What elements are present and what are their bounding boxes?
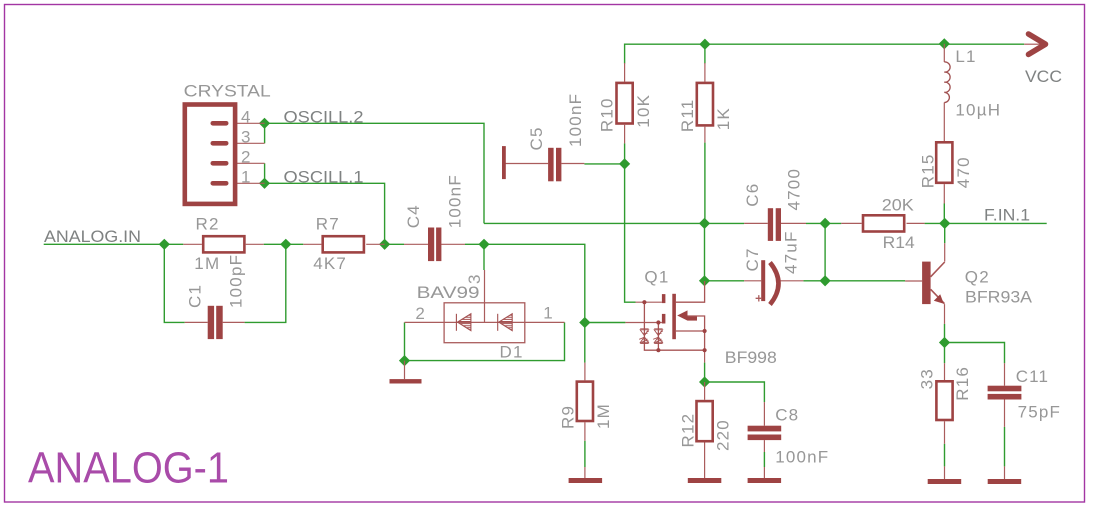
wire pin R7 right lead [366,243,384,245]
resistor R2 [203,236,244,252]
junction Q1 drain node [699,275,710,286]
wire crystal pin2 link [264,163,266,183]
wire pin R16 top lead [944,363,946,380]
wire pin R11 bottom lead [704,127,706,143]
ground symbol at C11 [988,479,1022,484]
wire pin VCC arrow lead [1024,43,1040,45]
wire C8 bottom to ground [763,452,765,467]
wire R9 bottom to ground [584,441,586,467]
svg-text:4K7: 4K7 [313,254,347,273]
wire C6/C7 junction link [824,223,826,280]
wire pin D1 pin3 vertical [484,270,486,322]
svg-text:10µH: 10µH [955,101,1001,120]
svg-text:R10: R10 [598,97,617,132]
capacitor C6 plates [768,208,781,241]
wire R11 bottom to C6 row [704,143,706,224]
wire emitter node to C11 branch [945,343,1005,364]
diode D1 element 2 [498,314,513,331]
wire R10 bottom to junction [624,143,626,164]
svg-text:CRYSTAL: CRYSTAL [184,82,271,101]
svg-text:470: 470 [954,156,973,188]
wire D1 pin2 to ground rail [405,322,565,360]
junction D1 ground node [399,355,410,366]
transistor Q1 protection diodes [639,329,662,344]
wire pin L1 top lead [943,44,945,62]
wire pin R10 bottom lead [624,125,626,144]
wire pin gate2 lead [625,322,662,324]
svg-text:100nF: 100nF [446,174,465,228]
junction C6 row / R11 [699,218,710,229]
wire pin R12 top lead [704,382,706,400]
wire C4 right to junction [465,243,484,245]
capacitor C7 polarized [761,260,778,304]
svg-text:100nF: 100nF [775,448,829,467]
svg-text:R2: R2 [196,215,220,234]
wire pin C5 right lead [561,163,584,165]
svg-text:10K: 10K [634,94,653,128]
wire pin R16 ground stub [944,466,946,479]
wire top VCC rail [625,44,1025,63]
crystal pads [213,123,226,183]
wire C4 junction to gate2 column [484,244,585,362]
svg-text:2: 2 [241,148,250,167]
junction R2/R7/C1 [280,239,291,250]
wire pin R10 top lead [624,63,626,82]
junction Q1 source node [699,376,710,387]
svg-text:Q2: Q2 [965,268,990,287]
wire pin R14 left lead [841,222,861,224]
wire emitter node down to R16 [944,343,946,364]
inductor L1 coil [944,62,950,103]
wire pin Q2 collector lead [944,243,946,261]
svg-text:F.IN.1: F.IN.1 [984,205,1030,224]
svg-text:R12: R12 [679,413,698,448]
resistor R11 [697,83,713,126]
wire net OSCILL.2 [265,123,485,223]
resistor R7 [323,236,364,252]
transistor Q1 symbol [642,281,706,352]
wire pin C11 ground stub [1004,466,1006,479]
svg-text:33: 33 [918,368,937,389]
svg-text:220: 220 [714,419,733,451]
resistor R15 [936,142,952,183]
wire pin crystal pin4 [228,122,265,124]
wire pin C8 top lead [763,402,765,426]
wire pin D1 pin2 lead [405,321,445,323]
junction top rail L1 [939,38,950,49]
svg-text:C6: C6 [743,183,762,207]
junction OSCILL.1 at crystal [259,178,270,189]
svg-text:1: 1 [241,168,250,187]
wire pin C1 left lead [185,321,208,323]
svg-text:L1: L1 [955,47,976,66]
wire pin C1 right lead [223,321,245,323]
ground symbol at D1 [390,379,422,383]
wire pin R2 left lead [183,243,202,245]
wire pin C5 left stub [506,163,549,165]
capacitor C8 plates [748,426,782,440]
wire pin C4 right lead [441,243,465,245]
VCC arrow [1029,34,1046,54]
svg-text:3: 3 [241,128,250,147]
wire C6 right to junction [806,222,841,224]
svg-text:47uF: 47uF [782,230,801,274]
junction gate2 node [579,317,590,328]
svg-text:VCC: VCC [1025,67,1062,86]
wire pin R16 bottom lead [944,421,946,444]
svg-text:C1: C1 [186,284,205,308]
wire Q1 drain node vertical [704,223,706,280]
wire R7-C4 segment [385,243,404,245]
svg-text:C7: C7 [743,247,762,271]
wire R16 bottom to ground [944,444,946,467]
wire pin R9 ground stub [584,467,586,478]
svg-text:BF998: BF998 [725,348,777,367]
wire C1 left branch [164,244,184,322]
svg-text:1M: 1M [194,254,220,273]
svg-text:1K: 1K [714,107,733,130]
wire pin C7 left lead [744,280,761,282]
wire R2-R7 segment [264,243,304,245]
ground symbol at C8 [748,478,782,483]
svg-text:R7: R7 [316,215,340,234]
capacitor C1 plates [208,306,223,339]
wire C5 right to junction [584,163,624,165]
wire pin R12 bottom lead [704,443,706,479]
svg-text:R9: R9 [559,405,578,429]
junction C7 right [820,275,831,286]
svg-text:R16: R16 [953,366,972,401]
wire pin R9 top lead [584,363,586,381]
wire pin R15 bottom lead [943,184,945,203]
diode D1 element 1 [456,314,471,331]
wire junction to Q1 gate1 [625,164,636,302]
wire source node to C8 branch [705,382,765,402]
svg-text:1M: 1M [594,403,613,429]
svg-text:C8: C8 [775,406,799,425]
wire pin C4 left lead [404,243,428,245]
wire net F.IN.1 [945,222,1047,224]
resistor R9 [577,382,593,421]
wire crystal pin3 link [264,123,266,143]
wire pin R2 right lead [246,243,264,245]
wire pin R9 bottom lead [584,422,586,441]
wire pin Q2 base lead [905,280,922,282]
wire C1 right branch [245,244,286,322]
svg-text:20K: 20K [882,196,915,215]
junction F.IN.1 node [939,218,950,229]
wire pin R14 right lead [907,222,925,224]
junction C5/R10 node [619,158,630,169]
wire C11 bottom to ground [1004,427,1006,467]
wire R15 bottom to F.IN.1 junction [943,204,945,224]
wire Q2 emitter to node [944,324,946,343]
svg-text:4700: 4700 [785,168,804,211]
svg-text:C4: C4 [404,204,423,228]
wire R14 right to F.IN.1 junction [925,222,945,224]
svg-text:BFR93A: BFR93A [965,287,1033,306]
svg-text:75pF: 75pF [1018,402,1062,421]
diode D1 outline box [444,303,525,343]
svg-text:R14: R14 [883,233,915,252]
svg-text:OSCILL.1: OSCILL.1 [284,167,364,186]
svg-text:2: 2 [415,304,424,323]
wire pin L1-R15 link [943,103,945,142]
resistor R10 [617,83,633,124]
wire pin Q2 emitter lead [944,304,946,324]
wire F.IN.1 junction to Q2 collector [944,223,946,243]
capacitor C5 plates [502,146,561,181]
svg-text:4: 4 [241,108,250,127]
wire pin C11 top lead [1004,363,1006,386]
wire net ANALOG.IN horizontal [44,243,184,245]
wire pin D1 ground stub [404,361,406,380]
crystal housing [185,105,235,204]
junction Q2 emitter node [939,337,950,348]
wire pin D1 pin1 lead [525,321,565,323]
ground symbol at R9 [569,478,603,483]
ground symbol at R12 [688,478,722,483]
svg-text:ANALOG.IN: ANALOG.IN [44,227,141,246]
svg-text:1: 1 [543,304,552,323]
wire pin crystal pin1 [228,182,265,184]
junction R7/C4/OSCILL.1 [379,239,390,250]
svg-text:R15: R15 [919,153,938,188]
resistor R16 [936,381,952,420]
wire gate2 branch [585,322,626,324]
wire pin R7 left lead [303,243,321,245]
junction ANALOG.IN/C1 [159,239,170,250]
wire pin R11 top lead [704,63,706,82]
wire C7 junction to Q2 base [825,280,905,282]
wire C4 junction to D1 pin3 [483,244,485,270]
ground symbol at R16 [928,479,962,484]
svg-text:C5: C5 [527,126,546,150]
diode D1 internal line [444,321,525,323]
wire pin crystal pin3 [228,142,265,144]
wire pin gate1 lead [636,301,662,303]
capacitor C7 plus sign [756,295,762,301]
transistor Q2 symbol [922,262,945,305]
wire net OSCILL.1 [265,183,385,244]
capacitor C11 plates [988,386,1022,400]
svg-text:Q1: Q1 [644,268,669,287]
svg-text:D1: D1 [500,343,524,362]
junction top rail R11 [699,39,710,50]
svg-text:ANALOG-1: ANALOG-1 [28,445,229,493]
junction C4/OSCILL.2/D1 [478,239,489,250]
wire drain node to C7 [705,280,745,282]
svg-text:R11: R11 [678,99,697,133]
capacitor C4 plates [428,228,441,262]
svg-text:3: 3 [465,275,484,284]
resistor R14 [863,215,904,231]
resistor R12 [697,401,713,441]
wire pin C8 ground stub [763,467,765,478]
wire pin C7 right lead [780,280,804,282]
wire Q1 source to node [704,363,706,382]
wire pin C11 bottom lead [1004,400,1006,427]
wire pin C6 left lead [744,222,768,224]
junction OSCILL.2 at crystal [259,118,270,129]
svg-text:BAV99: BAV99 [417,283,480,302]
wire C7 right to junction [803,280,825,282]
wire R11 top [704,44,706,63]
wire pin C8 bottom lead [763,440,765,452]
svg-text:C11: C11 [1016,367,1050,386]
junction C6 right [820,218,831,229]
svg-text:OSCILL.2: OSCILL.2 [284,107,364,126]
wire pin crystal pin2 [228,162,265,164]
svg-text:100pF: 100pF [226,254,245,308]
wire pin C6 right lead [781,222,806,224]
wire OSCILL.2 branch to C6 row [484,222,744,224]
svg-text:100nF: 100nF [566,93,585,147]
wire pin Q1 source lead [704,350,706,362]
